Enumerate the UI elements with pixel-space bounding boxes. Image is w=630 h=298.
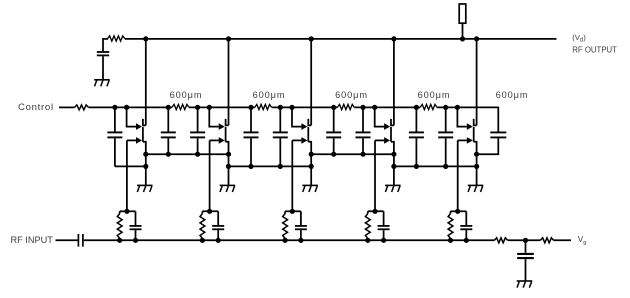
wire: drain of stage 5 up to rail [476, 39, 478, 126]
junction dots: source bus upper level [143, 152, 479, 157]
wire: drain of stage 1 up to rail [145, 39, 147, 126]
capacitor C6 [273, 131, 288, 133]
transistor Q2b source electrode to source drop [226, 142, 229, 186]
wire: RF INPUT lead [56, 239, 78, 241]
transistor Q3a/Q3b shared channel electrode [307, 127, 309, 142]
transistor Q4b gate arrow [384, 137, 390, 144]
transistor Q5b source electrode to source drop [474, 142, 477, 186]
wire: gate line segment [354, 106, 420, 108]
transistor Q4b lower FET gate lead [375, 139, 384, 141]
transistor Q4a gate arrow [384, 123, 390, 130]
wire: C18 to ground [525, 259, 527, 280]
capacitor C3 [161, 131, 176, 133]
transistor Q4a/Q4b shared channel electrode [390, 127, 392, 142]
junction dots: RF line at RC feet [117, 238, 469, 243]
transistor Q5b lower FET gate lead [458, 139, 467, 141]
ground (stage 3 source) [302, 185, 318, 192]
junction dots: drain rail at stage drains [143, 36, 479, 41]
wire: source bus upper level stage1-stage2 [146, 153, 229, 155]
wire: stage 3 lower gate drop to RC network [291, 140, 293, 211]
capacitor C10 [438, 131, 453, 133]
svg-text:Control: Control [18, 102, 54, 113]
transistor Q5a drain electrode [474, 119, 477, 126]
resistor R1 drain termination (box) [459, 4, 466, 23]
svg-text:600μm: 600μm [253, 90, 286, 100]
capacitor C8 [356, 131, 371, 133]
svg-text:600μm: 600μm [335, 90, 368, 100]
capacitor C10 top lead from gate line [445, 107, 447, 131]
transistor Q3b gate arrow [301, 137, 307, 144]
wire: drain of stage 4 up to rail [393, 39, 395, 126]
svg-text:600μm: 600μm [418, 90, 451, 100]
wire: to bypass junction [508, 239, 541, 241]
capacitor C18 gate bias bypass [517, 253, 534, 255]
wire: RC network 2 top bar [202, 210, 218, 212]
wire: to V terminal [554, 239, 572, 241]
wire: RC network 5 top bar [451, 210, 467, 212]
svg-text:Vg: Vg [578, 235, 587, 246]
wire: stage 1 lower gate drop to RC network [126, 140, 128, 211]
svg-text:RF OUTPUT: RF OUTPUT [572, 46, 617, 55]
transistor Q5a gate arrow [467, 123, 473, 130]
junction: R1 on drain rail [460, 36, 465, 41]
ground (bias bypass) [94, 80, 110, 87]
capacitor C10 bottom lead [445, 138, 447, 166]
wire: stage 5 lower gate drop to RC network [457, 140, 459, 211]
wire: bias cap to ground [102, 56, 104, 79]
capacitor C2 bottom lead [114, 138, 116, 166]
inductor L5 gate line 600um section [420, 104, 437, 109]
capacitor C12 gate coupling [135, 211, 137, 225]
transistor Q4a drain electrode [391, 119, 394, 126]
wire: source bus lower level cap to stage1 [115, 165, 146, 167]
ground (gate bias bypass) [517, 281, 533, 288]
transistor Q1b lower FET gate lead [127, 139, 136, 141]
capacitor C7 bottom lead [333, 138, 335, 154]
inductor L2 gate line 600um section [172, 104, 189, 109]
svg-text:600μm: 600μm [170, 90, 203, 100]
capacitor C11 bottom lead to source bus [497, 138, 499, 155]
transistor Q3b lower FET gate lead [292, 139, 301, 141]
wire: source bus upper level stage5 to right cap [477, 153, 499, 155]
transistor Q1a gate arrow [136, 123, 142, 130]
transistor Q1a drain electrode [143, 119, 146, 126]
transistor Q3a upper FET gate branch [292, 107, 301, 126]
resistor R2 control series [75, 105, 89, 110]
svg-text:RF INPUT: RF INPUT [11, 235, 54, 245]
capacitor C4 [190, 131, 205, 133]
capacitor C18 gate bias bypass lead [525, 240, 527, 253]
capacitor C2 [107, 131, 122, 133]
transistor Q1b source electrode to source drop [143, 142, 146, 186]
capacitor C6 bottom lead [279, 138, 281, 166]
wire: gate line elbow down to C11 [497, 107, 499, 132]
wire: gate line segment [272, 106, 338, 108]
wire: stage 2 lower gate drop to RC network [209, 140, 211, 211]
resistor R10 gate line termination [495, 238, 508, 243]
resistor R6 gate bias [201, 211, 203, 213]
transistor Q3a gate arrow [301, 123, 307, 130]
capacitor C11 far right [490, 131, 506, 133]
wire: top drain rail [125, 38, 557, 40]
capacitor C3 top lead from gate line [167, 107, 169, 131]
transistor Q2b gate arrow [219, 137, 225, 144]
wire: top drain rail (left stub before inductor) [103, 38, 108, 40]
capacitor C17 input DC block [77, 234, 79, 247]
junction dots: RC network tops [124, 209, 460, 214]
capacitor C2 top lead from gate line [114, 107, 116, 131]
capacitor C13 gate coupling [217, 211, 219, 225]
resistor R7 gate bias [284, 211, 286, 213]
transistor Q1b gate arrow [136, 137, 142, 144]
transistor Q2a/Q2b shared channel electrode [225, 127, 227, 142]
wire: drain of stage 3 up to rail [310, 39, 312, 126]
ground (stage 1 source) [137, 185, 153, 192]
transistor Q5b gate arrow [467, 137, 473, 144]
capacitor C15 gate coupling [383, 211, 385, 225]
capacitor C3 bottom lead [167, 138, 169, 154]
capacitor C4 bottom lead [197, 138, 199, 154]
transistor Q2a gate arrow [219, 123, 225, 130]
capacitor C5 bottom lead [250, 138, 252, 166]
wire: source bus lower level stage4-stage5 [394, 165, 477, 167]
resistor R5 gate bias [119, 211, 121, 213]
transistor Q1a upper FET gate branch [127, 107, 136, 126]
capacitor C8 top lead from gate line [362, 107, 364, 131]
wire: RF input line [84, 239, 495, 241]
resistor R9 gate bias [450, 211, 452, 213]
capacitor C1 bias bypass [97, 51, 109, 53]
junction dots: gate line cap and gate taps [112, 105, 460, 110]
wire: source bus lower level stage2-stage3 [229, 165, 312, 167]
wire: R1 lead to rail [462, 23, 464, 39]
ground (stage 4 source) [385, 185, 401, 192]
capacitor C7 [326, 131, 341, 133]
capacitor C16 gate coupling [465, 211, 467, 225]
capacitor C4 top lead from gate line [197, 107, 199, 131]
wire: gate line segment 1 [89, 106, 173, 108]
inductor L1 drain bias choke [107, 36, 125, 41]
transistor Q3b source electrode to source drop [308, 142, 311, 186]
junction: bypass cap on RF line [523, 238, 528, 243]
capacitor C8 bottom lead [362, 138, 364, 154]
junction dots: source bus lower level [143, 164, 479, 169]
wire: gate line segment [189, 106, 255, 108]
resistor R11 gate bias feed [541, 238, 554, 243]
svg-text:(Vd): (Vd) [572, 33, 586, 44]
wire: stage 4 lower gate drop to RC network [374, 140, 376, 211]
wire: gate line segment [437, 106, 498, 108]
transistor Q3a drain electrode [308, 119, 311, 126]
transistor Q2b lower FET gate lead [210, 139, 219, 141]
ground (stage 5 source) [468, 185, 484, 192]
capacitor C6 top lead from gate line [279, 107, 281, 131]
wire: RC network 3 top bar [285, 210, 301, 212]
wire: drain of stage 2 up to rail [228, 39, 230, 126]
transistor Q2a drain electrode [226, 119, 229, 126]
ground (stage 2 source) [220, 185, 236, 192]
wire: source bus upper level stage3-stage4 [311, 153, 394, 155]
transistor Q5a upper FET gate branch [457, 107, 466, 126]
resistor R8 gate bias [367, 211, 369, 213]
wire: RC network 1 top bar [120, 210, 136, 212]
capacitor C7 top lead from gate line [333, 107, 335, 131]
wire: Control lead [59, 106, 75, 108]
wire: RC network 4 top bar [368, 210, 384, 212]
inductor L4 gate line 600um section [337, 104, 354, 109]
svg-text:600μm: 600μm [496, 90, 529, 100]
capacitor C9 [409, 131, 424, 133]
inductor L3 gate line 600um section [255, 104, 272, 109]
capacitor C14 gate coupling [300, 211, 302, 225]
transistor Q1a/Q1b shared channel electrode [142, 127, 144, 142]
transistor Q5a/Q5b shared channel electrode [473, 127, 475, 142]
capacitor C5 top lead from gate line [250, 107, 252, 131]
capacitor C9 bottom lead [415, 138, 417, 166]
wire: bias branch vertical from rail [102, 38, 104, 51]
capacitor C5 [244, 131, 259, 133]
transistor Q4a upper FET gate branch [375, 107, 384, 126]
capacitor C9 top lead from gate line [415, 107, 417, 131]
transistor Q2a upper FET gate branch [209, 107, 218, 126]
transistor Q4b source electrode to source drop [391, 142, 394, 186]
